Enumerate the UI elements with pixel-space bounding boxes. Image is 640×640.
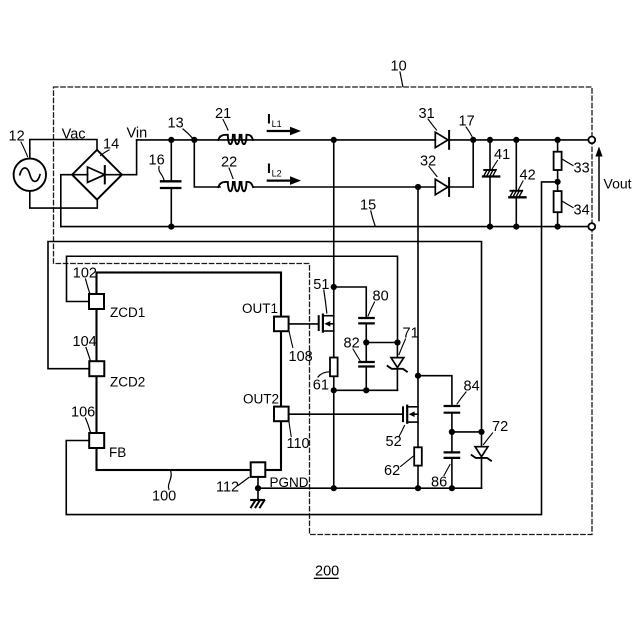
label 110 (287, 422, 310, 452)
svg-text:13: 13 (168, 116, 184, 132)
wire drain branch phase1 (333, 140, 335, 358)
node cap41 top (487, 137, 493, 143)
label 71 (399, 326, 419, 355)
output terminal bottom (588, 223, 595, 230)
Vin top rail (line 1) (137, 139, 436, 141)
MOSFET 52 (403, 406, 418, 423)
output rail top (473, 139, 588, 141)
label 32 (420, 154, 437, 177)
label 52 (386, 426, 405, 451)
svg-text:L2: L2 (272, 169, 282, 179)
wire OUT1 to gate M51 (289, 323, 319, 325)
label 14 (101, 137, 120, 156)
svg-text:31: 31 (419, 106, 435, 122)
capacitor 84 (445, 406, 459, 432)
node cap84 bottom (449, 429, 455, 435)
label 17 (459, 114, 475, 137)
wire bridge right corner to Vin rail (122, 140, 137, 175)
ground rail lower (258, 487, 482, 489)
label 62 (384, 456, 414, 479)
MOSFET 51 (319, 315, 334, 332)
label 42 (519, 168, 536, 190)
resistor 62 (414, 447, 422, 488)
node R34 bottom (555, 224, 561, 230)
node cap16 top (168, 137, 174, 143)
label 108 (289, 332, 313, 365)
node cap42 top (513, 137, 519, 143)
current label IL1 (267, 111, 301, 136)
pin ZCD2 104 (89, 361, 104, 376)
label 33 (562, 159, 590, 177)
label 61 (313, 372, 330, 394)
wire AC bottom to bridge bottom (30, 191, 98, 208)
wire ZCD1 sense (67, 256, 398, 342)
pin PGND 112 (251, 462, 266, 477)
node 13 (191, 137, 197, 143)
pin ZCD1 102 (89, 294, 104, 309)
svg-text:12: 12 (9, 129, 25, 145)
resistor 33 (554, 140, 562, 182)
phase1 local rail (334, 389, 398, 391)
label 41 (492, 147, 510, 169)
svg-text:112: 112 (216, 480, 239, 496)
label 21 (215, 106, 231, 130)
resistor 61 (330, 358, 338, 391)
AC source 12 (14, 159, 46, 191)
pin FB 106 (89, 433, 104, 448)
svg-text:34: 34 (574, 203, 590, 219)
node divider mid (555, 179, 561, 185)
node phase1 gnd (331, 485, 337, 491)
pin OUT2 110 (274, 407, 289, 422)
svg-text:ZCD1: ZCD1 (110, 305, 145, 320)
svg-text:51: 51 (313, 277, 329, 293)
svg-text:61: 61 (313, 377, 329, 393)
label 15 (360, 198, 376, 226)
node cap41 bottom (487, 224, 493, 230)
label 51 (313, 277, 329, 313)
capacitor 82 (359, 343, 373, 391)
svg-text:32: 32 (420, 154, 436, 170)
label 12 (9, 129, 28, 157)
svg-text:62: 62 (384, 463, 400, 479)
node R33 top (555, 137, 561, 143)
inductor 21 (218, 135, 253, 144)
svg-text:16: 16 (149, 153, 165, 169)
label 10 (391, 59, 407, 87)
capacitor 86 (445, 432, 459, 488)
svg-text:33: 33 (574, 161, 590, 177)
inductor 22 (218, 182, 253, 191)
label 200 (315, 564, 340, 580)
wire zcd1 node (366, 342, 397, 344)
node drain1 top rail tap (331, 137, 337, 143)
IC 100 box (97, 273, 282, 471)
dashed boundary box 10/200 (54, 87, 593, 535)
ground symbol (251, 488, 264, 507)
label 100 (152, 472, 176, 505)
current label IL2 (267, 160, 301, 185)
wire FB feedback (66, 182, 557, 515)
node line2 tap (415, 184, 421, 190)
label 86 (431, 465, 450, 491)
svg-text:I: I (267, 160, 271, 176)
svg-text:82: 82 (344, 336, 360, 352)
svg-text:I: I (267, 111, 271, 127)
svg-text:OUT2: OUT2 (243, 391, 279, 406)
svg-text:41: 41 (494, 147, 510, 163)
svg-text:Vac: Vac (62, 126, 86, 142)
label 34 (562, 201, 590, 219)
node R62 gnd (415, 485, 421, 491)
diode 32 (435, 178, 473, 196)
label 22 (221, 155, 237, 179)
svg-text:14: 14 (103, 137, 119, 153)
label 72 (484, 419, 509, 445)
zener 71 (388, 343, 407, 391)
capacitor 80 (359, 318, 373, 343)
node R61 bottom (331, 387, 337, 393)
node 17 (470, 137, 476, 143)
node cap16 bottom (168, 224, 174, 230)
svg-text:FB: FB (109, 445, 126, 460)
zener 72 (472, 432, 491, 488)
node zener71 top (394, 339, 400, 345)
label 106 (71, 405, 95, 433)
label 80 (368, 289, 389, 317)
svg-text:72: 72 (492, 419, 508, 435)
svg-text:104: 104 (73, 334, 97, 350)
wire bridge left corner to bottom rail (61, 175, 72, 227)
line 2 to diode 32 (254, 186, 435, 188)
svg-text:102: 102 (73, 266, 97, 282)
label 84 (457, 379, 480, 405)
pin OUT1 108 (274, 317, 289, 332)
node cap86 gnd (449, 485, 455, 491)
svg-text:106: 106 (71, 405, 95, 421)
node PGND (255, 485, 261, 491)
bridge rectifier 14 (72, 150, 122, 200)
svg-text:L1: L1 (272, 119, 282, 129)
wire diode32 up to node 17 (472, 140, 474, 187)
bottom rail (61, 226, 588, 228)
label 31 (419, 106, 437, 130)
node zener72 top (478, 429, 484, 435)
label 102 (73, 266, 97, 294)
wire phase1 rail to ground rail (333, 390, 335, 488)
resistor 34 (554, 182, 562, 227)
svg-text:108: 108 (289, 349, 313, 365)
label 82 (344, 336, 361, 361)
svg-text:ZCD2: ZCD2 (110, 375, 145, 390)
wire drain1 to cap80 (334, 287, 367, 318)
wire ZCD2 sense (48, 242, 482, 432)
Vout arrow (595, 147, 602, 221)
node cap80 bottom (363, 339, 369, 345)
wire zcd2 node (452, 431, 482, 433)
wire OUT2 to gate M52 (289, 413, 403, 415)
label 16 (149, 153, 165, 181)
capacitor 41 (483, 140, 499, 227)
svg-text:10: 10 (391, 59, 407, 75)
svg-text:Vout: Vout (604, 176, 632, 192)
node drain1 (331, 284, 337, 290)
capacitor 42 (509, 140, 525, 227)
node drain2 (415, 373, 421, 379)
svg-text:100: 100 (152, 489, 176, 505)
wire PGND pin to ground (257, 477, 259, 488)
svg-text:200: 200 (315, 564, 339, 580)
node cap42 bottom (513, 224, 519, 230)
svg-text:110: 110 (287, 436, 310, 452)
label 112 (216, 478, 249, 496)
label 104 (73, 334, 97, 361)
output terminal top (588, 137, 595, 144)
label 13 (168, 116, 193, 139)
node cap82 bottom (363, 387, 369, 393)
capacitor 16 (161, 140, 180, 227)
wire AC top to bridge top (30, 140, 97, 159)
wire drain branch phase2 (417, 187, 419, 447)
svg-text:42: 42 (520, 168, 536, 184)
svg-text:15: 15 (360, 198, 376, 214)
wire node13 down to line 2 (194, 140, 220, 187)
wire drain2 to cap84 (418, 376, 452, 406)
diode 31 (435, 131, 473, 149)
svg-text:OUT1: OUT1 (242, 301, 278, 316)
